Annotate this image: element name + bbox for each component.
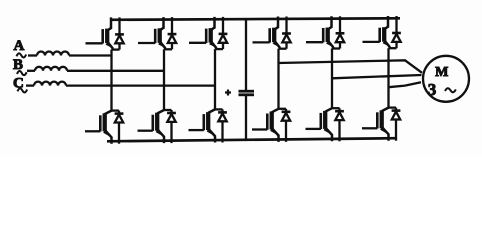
wire: inverter leg 4 midpoint vertical [277,49,279,109]
diode D10 (freewheel, antiparallel with Q10) [335,108,344,141]
diode D4 (freewheel, antiparallel with Q4) [167,110,176,143]
inductor LB (phase B line reactor) [27,67,67,71]
transistor Q2 (IGBT, lower) [85,111,119,144]
transistor Q8 (IGBT, lower) [252,109,286,142]
node A (phase A label) [14,38,27,57]
diode D7 (freewheel, antiparallel with Q7) [282,17,291,49]
transistor Q9 (IGBT, upper) [306,16,340,48]
wire: inverter leg 5 midpoint vertical [331,49,333,109]
transistor Q10 (IGBT, lower) [306,108,340,141]
wire: negative DC bus rail (bottom) [107,138,397,141]
svg-text:A: A [14,38,25,54]
transistor Q4 (IGBT, lower) [138,110,172,143]
transistor Q12 (IGBT, lower) [362,108,396,141]
wire: rectifier leg 3 midpoint vertical [214,49,216,109]
diode D1 (freewheel, antiparallel with Q1) [115,17,124,49]
svg-text:3: 3 [428,80,437,99]
diode D3 (freewheel, antiparallel with Q3) [168,17,177,49]
wire: DC link capacitor branch [245,19,247,140]
wire: rectifier leg 2 midpoint vertical [163,49,165,110]
transistor Q1 (IGBT, upper) [86,17,120,49]
motor M (3-phase AC machine) [423,56,469,102]
polarity label + for C1 [225,90,231,96]
wire: phase A feeder to rectifier leg [69,54,112,56]
svg-text:M: M [435,65,448,80]
transistor Q11 (IGBT, upper) [363,16,397,48]
inductor LA (phase A line reactor) [28,52,69,56]
transistor Q3 (IGBT, upper) [138,17,172,49]
diode D8 (freewheel, antiparallel with Q8) [282,109,291,142]
transistor Q5 (IGBT, upper) [189,17,223,49]
wire: phase B feeder to rectifier leg [67,70,164,72]
node B (phase B label) [13,57,27,75]
wire: rectifier leg 1 midpoint vertical [110,50,112,111]
diode D9 (freewheel, antiparallel with Q9) [336,16,345,48]
svg-text:B: B [13,57,23,73]
wire: inverter output U (from leg 4) to motor [279,60,423,73]
transistor Q7 (IGBT, upper) [253,17,287,49]
capacitor C1 (DC link electrolytic) [239,91,255,95]
wire: inverter output W (from leg 6) to motor [389,82,422,87]
diode D2 (freewheel, antiparallel with Q2) [115,111,124,144]
diode D11 (freewheel, antiparallel with Q11) [392,16,401,48]
node C (phase C label) [13,76,27,93]
diode D5 (freewheel, antiparallel with Q5) [219,17,228,49]
transistor Q6 (IGBT, lower) [189,109,223,142]
diode D6 (freewheel, antiparallel with Q6) [218,109,227,142]
diode D12 (freewheel, antiparallel with Q12) [392,108,401,141]
wire: inverter output V (from leg 5) to motor [332,75,422,78]
wire: phase C feeder to rectifier leg [66,84,215,86]
inductor LC (phase C line reactor) [26,82,66,86]
wire: inverter leg 6 midpoint vertical [387,48,389,107]
wire: positive DC bus rail (top) [110,18,400,20]
